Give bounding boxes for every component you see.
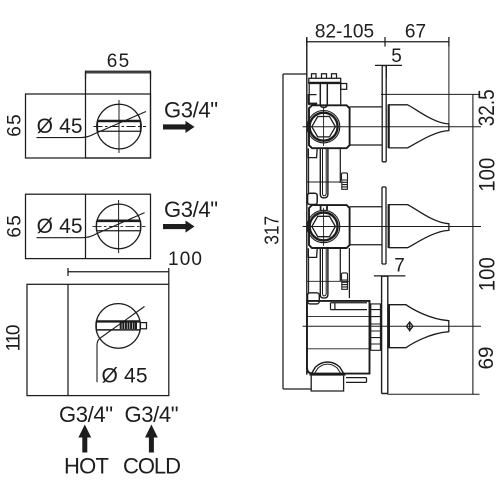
fig2 plate outline	[26, 194, 151, 258]
fig2 vertical centerline	[118, 200, 120, 253]
mounting screw above unit3	[342, 273, 348, 289]
fig2 outlet arrow	[163, 221, 195, 233]
unit3 top-left knob	[308, 293, 320, 304]
unit3 cartridge column	[371, 304, 381, 350]
fig3 dimension 100 line	[68, 268, 169, 284]
box side wall 2-3	[308, 257, 310, 292]
chain tick 32.5 top	[381, 93, 480, 95]
unit2 stem stubs at body top	[321, 205, 327, 210]
svg-text:82-105: 82-105	[315, 21, 374, 42]
box side wall 1-2	[308, 158, 310, 194]
unit2 top-left knob	[308, 193, 318, 204]
svg-text:COLD: COLD	[123, 453, 181, 478]
unit1 sleeve to plate	[350, 107, 383, 145]
unit1 top-left tab bold base	[308, 103, 317, 105]
right inner line 1-2	[339, 148, 341, 183]
svg-text:Ø 45: Ø 45	[102, 365, 148, 388]
fig1 left extension box (65 height dimension)	[26, 94, 151, 158]
unit1 stem slot	[320, 83, 327, 108]
box joint line 2-3	[307, 280, 350, 282]
pipe slot 1-2	[320, 148, 328, 198]
svg-text:Ø 45: Ø 45	[37, 115, 83, 138]
fig1 diameter leader	[37, 112, 147, 138]
svg-text:G3/4": G3/4"	[164, 197, 218, 222]
fig2 diameter leader	[37, 213, 145, 238]
plate 1	[382, 66, 386, 162]
handle 2	[389, 205, 449, 248]
unit2 axis centerline	[303, 226, 481, 228]
unit1 vertical centerline	[323, 108, 325, 146]
cold inlet arrow	[145, 425, 158, 453]
mounting screw above unit2	[342, 173, 348, 189]
unit2 cartridge outer circle	[307, 210, 339, 242]
svg-text:67: 67	[405, 21, 426, 42]
handle 3 bold back face	[388, 304, 390, 348]
unit3 inner joint line upper	[307, 316, 370, 318]
chain tick bottom 69	[388, 393, 480, 395]
fig1 horizontal dash centerline	[94, 126, 147, 128]
unit1 bonnet tabs	[312, 74, 337, 79]
fig3 handle side tab	[140, 323, 146, 329]
fig3 plate outline	[27, 284, 169, 395]
fig3 diameter leader	[97, 307, 145, 383]
handle 1	[389, 105, 449, 148]
fig2 plate divider	[85, 194, 87, 258]
pipe slot 2-3	[320, 248, 328, 298]
fig1 plate outline	[86, 73, 151, 158]
fig2 handle bar bottom	[97, 221, 141, 231]
unit2 sleeve to plate	[350, 207, 382, 245]
fig3 handle circle	[96, 304, 141, 349]
pipe inner slot 2-3	[323, 248, 327, 296]
unit3 dome	[312, 362, 344, 373]
unit3 bottom flange	[311, 376, 343, 391]
svg-text:HOT: HOT	[64, 453, 109, 478]
svg-text:65: 65	[4, 215, 25, 237]
svg-text:G3/4": G3/4"	[59, 402, 113, 427]
svg-text:G3/4": G3/4"	[125, 402, 179, 427]
fig2 horizontal dash centerline	[93, 225, 146, 227]
unit2 cartridge hex nut	[312, 216, 336, 236]
unit2 vertical centerline	[323, 208, 325, 246]
dimension 7 line	[374, 275, 406, 277]
handle 3 temperature button	[406, 322, 413, 332]
svg-text:65: 65	[4, 114, 25, 136]
unit3 dome bold base	[310, 373, 346, 375]
right dimension chain	[472, 94, 474, 394]
svg-text:65: 65	[107, 51, 129, 72]
unit1 bottom-left tab	[308, 148, 317, 157]
svg-text:100: 100	[168, 249, 202, 270]
fig1 outlet arrow	[163, 121, 195, 133]
unit1 cap bold base	[308, 82, 341, 84]
fig1 handle circle	[97, 104, 142, 149]
back wall vertical line	[306, 38, 308, 375]
fig2 handle circle	[96, 204, 141, 249]
svg-text:7: 7	[394, 256, 405, 277]
unit3 top inner ledge	[331, 303, 368, 310]
fig1 top dimension ticks	[86, 71, 151, 80]
unit1 cap	[309, 78, 341, 83]
dimension 5 line (plate thickness)	[375, 65, 402, 78]
svg-text:G3/4": G3/4"	[164, 98, 218, 123]
unit1 top-left tab	[308, 95, 317, 104]
plate 3	[382, 276, 388, 393]
unit2 body square	[309, 205, 350, 248]
fig1 handle bar bold top	[98, 120, 141, 123]
handle 2 bold back face	[388, 204, 390, 248]
top dimension line 82-105 / 67	[307, 37, 449, 47]
svg-text:100: 100	[474, 158, 499, 192]
svg-text:69: 69	[475, 347, 498, 370]
svg-text:32.5: 32.5	[474, 89, 499, 126]
box joint line 1-2	[307, 181, 341, 183]
unit1 cartridge outer circle	[307, 111, 339, 143]
unit3 outlet stub	[346, 378, 367, 383]
unit2 bottom-left tab	[308, 248, 317, 257]
unit3 dome inner line	[315, 364, 341, 373]
unit1 cartridge hex nut	[312, 117, 336, 137]
hot inlet arrow	[78, 425, 91, 453]
unit3 inner joint line lower	[307, 348, 370, 350]
plate 2	[382, 187, 386, 264]
unit1 body square	[309, 105, 350, 148]
right inner line 2-3	[340, 248, 349, 298]
svg-text:317: 317	[261, 216, 283, 245]
fig2 handle bar bold top	[97, 220, 141, 223]
svg-text:Ø 45: Ø 45	[37, 215, 83, 238]
dimension 317 line	[283, 74, 311, 389]
fig3 plate divider	[67, 284, 69, 395]
fig3 handle bar hatching	[121, 322, 136, 329]
handle 3	[389, 305, 449, 348]
unit2 cartridge bold ring	[310, 213, 338, 241]
fig3 handle bar	[96, 320, 140, 322]
67 extension line to handle tip	[448, 42, 450, 131]
unit1 axis centerline	[303, 126, 481, 128]
pipe inner slot 1-2	[323, 148, 327, 196]
unit3 body	[307, 301, 370, 374]
unit1 right lug	[341, 84, 347, 90]
fig1 vertical centerline	[118, 100, 120, 153]
unit1 cartridge bold ring	[310, 113, 338, 141]
svg-text:100: 100	[474, 257, 499, 291]
unit1 upper body	[309, 83, 341, 105]
svg-text:110: 110	[3, 325, 24, 352]
fig1 handle bar bottom	[98, 121, 141, 131]
handle 1 bold back face	[388, 104, 390, 148]
unit3 axis centerline	[303, 325, 481, 327]
svg-text:5: 5	[391, 46, 402, 67]
